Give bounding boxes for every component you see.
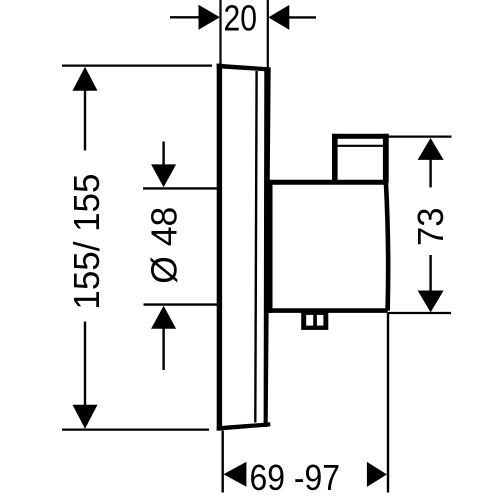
stem inner groove line [338,145,383,147]
valve body right edge [386,182,388,311]
wall plate left edge [217,64,222,431]
svg-text:69 -97: 69 -97 [250,457,341,498]
dim 73 up arrow [418,138,444,160]
bottom spindle block [301,309,328,330]
dim d48 bottom line [144,303,220,305]
stem top edge [332,134,388,139]
dim 69-97 extension line right [387,313,389,493]
dim 69-97 left arrow [224,462,247,487]
valve body bottom edge [267,308,388,313]
svg-text:20: 20 [224,0,258,38]
dim 20 left arrow [170,16,200,18]
valve body top edge [267,180,388,185]
dim 155 extension line bottom [62,429,209,431]
dim d48 up arrow [151,306,176,329]
dim 69-97 extension line left [221,431,223,493]
dim 155 up arrow [73,67,98,91]
svg-text:155/ 155: 155/ 155 [66,174,107,310]
dim d48 down arrow [162,142,164,167]
dim 73 down arrow [429,255,431,291]
svg-text:73: 73 [410,208,451,247]
dim 20 right arrow [268,5,289,30]
stem left edge [332,134,338,183]
dim 73 extension line top [389,136,452,138]
dim 20 extension line right [267,0,269,68]
dim 155 extension line top [62,64,212,66]
dim 73 extension line bottom [388,312,451,314]
wall plate right edge [264,68,271,428]
dim 20 extension line left [219,0,221,65]
wall plate bottom edge [217,422,271,430]
dim 69-97 right arrow [367,462,387,487]
wall plate inner profile line [255,71,256,423]
wall plate top edge [217,64,271,72]
svg-text:Ø 48: Ø 48 [143,207,184,284]
stem right edge [383,134,389,183]
valve body left edge [268,180,273,313]
dim 155 down arrow [84,322,86,407]
dim d48 top line [143,187,219,189]
